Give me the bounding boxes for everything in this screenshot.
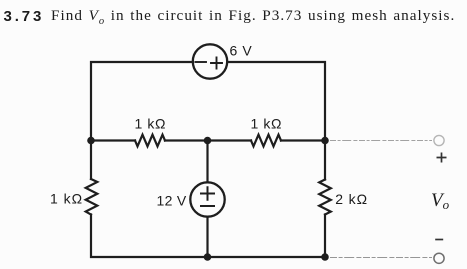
svg-text:2 kΩ: 2 kΩ — [335, 191, 368, 207]
wire middle branch lower — [206, 217, 208, 257]
node junction dot right-middle — [321, 137, 329, 145]
V1 plus terminal mark — [211, 58, 222, 69]
problem title text — [51, 9, 455, 29]
voltage source V2 12V — [190, 182, 224, 216]
problem number 3.73 — [4, 10, 45, 23]
wire bottom rail — [208, 256, 326, 258]
V1 minus terminal mark — [196, 61, 207, 63]
resistor R1 1k horizontal left — [135, 135, 165, 147]
svg-text:1 kΩ: 1 kΩ — [251, 116, 283, 132]
wire middle rail right — [281, 139, 325, 141]
wire right branch upper — [324, 141, 326, 180]
output terminal upper (open circle) — [434, 135, 444, 145]
wire top-right segment — [227, 62, 325, 141]
resistor R2 1k horizontal right — [251, 135, 281, 147]
wire left branch upper — [90, 141, 92, 180]
wire left branch lower — [91, 215, 208, 258]
V2 minus terminal mark — [201, 205, 214, 207]
resistor R3 1k vertical left — [86, 179, 98, 215]
node junction dot left-middle — [87, 137, 95, 145]
svg-text:1 kΩ: 1 kΩ — [135, 116, 167, 132]
voltage source V1 6V — [193, 44, 227, 78]
output polarity minus sign — [435, 239, 443, 241]
svg-text:Vo: Vo — [431, 190, 450, 212]
output polarity plus sign — [437, 153, 447, 163]
svg-text:1 kΩ: 1 kΩ — [50, 191, 83, 207]
dashed lead to lower output terminal — [330, 257, 432, 259]
resistor R4 2k vertical right — [319, 180, 331, 215]
node junction dot center-bottom — [204, 253, 212, 261]
node junction dot right-bottom — [321, 253, 329, 261]
wire right branch lower — [324, 215, 326, 258]
wire middle rail left — [91, 139, 135, 141]
svg-text:12 V: 12 V — [157, 193, 187, 209]
svg-text:6 V: 6 V — [230, 43, 253, 59]
wire middle rail center — [165, 139, 251, 141]
dashed lead to upper output terminal — [330, 140, 432, 142]
V2 plus terminal mark — [201, 187, 214, 200]
node junction dot center-middle — [204, 137, 212, 145]
wire middle branch upper — [206, 141, 208, 183]
output terminal lower (open circle) — [434, 253, 444, 263]
wire top-left segment — [91, 62, 193, 141]
